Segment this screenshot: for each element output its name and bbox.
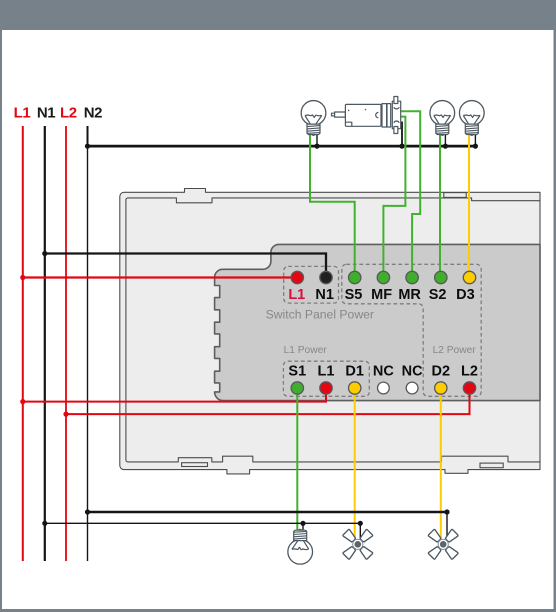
svg-text:NC: NC bbox=[402, 364, 423, 380]
svg-text:N1: N1 bbox=[37, 104, 55, 121]
switch panel inner rim line bbox=[126, 198, 540, 462]
fan F2 bbox=[428, 529, 458, 559]
terminal MR bbox=[406, 271, 418, 283]
wire bus to fan1 bbox=[359, 523, 361, 538]
svg-text:MR: MR bbox=[398, 287, 421, 303]
terminal D3 bbox=[463, 271, 475, 283]
lamp LA4 (bottom bulb, inverted) bbox=[288, 529, 313, 564]
dashed box around S1/L1/D1 terminals bbox=[283, 361, 369, 396]
svg-text:L2 Power: L2 Power bbox=[433, 345, 477, 356]
svg-text:MF: MF bbox=[371, 287, 392, 303]
lamp LA1 (top left bulb) bbox=[301, 101, 326, 136]
bottom page border bbox=[0, 609, 556, 612]
wire N2 (left vertical black, upper) bbox=[87, 126, 89, 146]
junction L1 tap bbox=[20, 275, 25, 280]
svg-text:S5: S5 bbox=[345, 287, 363, 303]
wire motor to MF (green) bbox=[383, 117, 405, 272]
terminal row 1 labels bbox=[288, 287, 474, 303]
terminal S5 bbox=[349, 271, 361, 283]
svg-text:Switch Panel Power: Switch Panel Power bbox=[266, 307, 374, 321]
junction lamp1/N2 bus bbox=[314, 144, 319, 149]
wire lamp3 to D3 (yellow) bbox=[468, 134, 470, 271]
junction motor/N2 bus bbox=[399, 144, 404, 149]
svg-text:S1: S1 bbox=[288, 364, 306, 380]
wire bus to fan2 bbox=[446, 512, 448, 539]
wire N1 to terminal N1 bbox=[45, 254, 326, 272]
svg-text:L2: L2 bbox=[461, 364, 478, 380]
svg-text:L1: L1 bbox=[288, 287, 305, 303]
wire N2 top bus bbox=[88, 145, 476, 148]
terminal L2 row2 bbox=[463, 382, 475, 394]
junction L2 tap bbox=[63, 412, 68, 417]
svg-text:L1: L1 bbox=[14, 104, 31, 121]
wire D2 to fan2 (yellow) bbox=[440, 394, 442, 538]
wire N2 (left vertical black, lower) bbox=[87, 146, 89, 561]
motor shaft bbox=[332, 112, 346, 117]
svg-text:D1: D1 bbox=[345, 364, 364, 380]
junction fan2 drop bbox=[444, 509, 449, 514]
motor body notch bbox=[345, 122, 351, 126]
motor cap arcs bbox=[394, 107, 399, 123]
terminal S1 bbox=[291, 382, 303, 394]
wire bus to bottom lamp bbox=[302, 523, 304, 530]
wire N2 bottom bus (upper) bbox=[88, 511, 448, 514]
junction L1 lower tap bbox=[20, 399, 25, 404]
wire N1 (left vertical black) bbox=[44, 126, 46, 561]
wire L1 to terminal L1 bbox=[23, 276, 294, 278]
wire lamp2 to S2 (green) bbox=[439, 134, 441, 271]
panel top-right clip slot bbox=[444, 193, 466, 198]
junction lamp3/N2 bus end bbox=[473, 144, 478, 149]
terminal MF bbox=[377, 271, 389, 283]
terminal D1 bbox=[349, 382, 361, 394]
lamp LA2 (top bulb above S2) bbox=[430, 101, 455, 136]
lamp LA3 (top bulb above D3) bbox=[459, 101, 484, 136]
left page border bbox=[0, 30, 2, 612]
wire lamp2 to N2 bus bbox=[444, 134, 446, 146]
wire labels L1 N1 L2 N2 (top left) bbox=[14, 104, 103, 121]
terminal S2 bbox=[435, 271, 447, 283]
wire motor to N2 bus bbox=[401, 122, 403, 147]
junction N2/top bus bbox=[85, 144, 90, 149]
motor terminal tab top bbox=[394, 97, 398, 104]
switch panel outer body bbox=[120, 189, 540, 474]
terminal NC a bbox=[378, 382, 390, 394]
svg-text:L1 Power: L1 Power bbox=[284, 345, 328, 356]
svg-text:N1: N1 bbox=[315, 287, 334, 303]
fan F1 bbox=[343, 529, 373, 559]
motor body bbox=[345, 104, 381, 126]
junction lamp2/N2 bus bbox=[443, 144, 448, 149]
terminal NC b bbox=[406, 382, 418, 394]
wire S1 to bottom lamp (green) bbox=[296, 394, 298, 531]
dashed L-shaped box around S5/MF/MR/S2/D3 + D2/L2 bbox=[342, 264, 481, 396]
wire L1 (left vertical red) bbox=[22, 126, 24, 561]
wire motor to MR (green) bbox=[401, 111, 421, 271]
junction lamp drop bbox=[300, 521, 305, 526]
panel bottom-right clip slot bbox=[480, 463, 503, 468]
motor terminal tab bottom bbox=[394, 127, 398, 134]
terminal row 2 labels bbox=[288, 364, 478, 380]
terminal L1 row2 bbox=[320, 382, 332, 394]
right page border bbox=[554, 30, 556, 612]
terminal N1 row1 bbox=[320, 271, 332, 283]
svg-text:N2: N2 bbox=[84, 104, 102, 121]
motor body dots bbox=[348, 110, 350, 112]
top slate band bbox=[0, 0, 556, 30]
motor body semicircle bbox=[376, 112, 379, 117]
svg-text:D2: D2 bbox=[432, 364, 451, 380]
wire N1 bottom bus (lower) bbox=[45, 522, 361, 524]
svg-text:NC: NC bbox=[373, 364, 394, 380]
wire lamp1 to S5 (green) bbox=[310, 133, 355, 271]
junction N2 bottom tap bbox=[85, 509, 90, 514]
wire lamp1 to N2 bus bbox=[316, 133, 318, 146]
wire lamp3 to N2 bus end bbox=[474, 134, 476, 146]
wire L1 to terminal L1 row2 bbox=[23, 394, 326, 402]
panel bottom-left clip slot bbox=[182, 463, 208, 467]
svg-text:L1: L1 bbox=[318, 364, 335, 380]
junction fan1 drop bbox=[358, 521, 363, 526]
motor gearbox slats bbox=[382, 104, 387, 127]
junction N1 tap bbox=[42, 251, 47, 256]
svg-text:S2: S2 bbox=[429, 287, 447, 303]
svg-text:L2: L2 bbox=[60, 104, 77, 121]
svg-text:D3: D3 bbox=[456, 287, 475, 303]
junction N1 bottom tap bbox=[42, 521, 47, 526]
motor M1 bbox=[332, 97, 401, 134]
terminal D2 bbox=[435, 382, 447, 394]
wire D1 to fan1 (yellow) bbox=[354, 394, 356, 538]
dashed box around L1/N1 terminals bbox=[284, 266, 339, 303]
terminal L1 row1 bbox=[291, 271, 303, 283]
wire L2 to terminal L2 row2 bbox=[66, 394, 470, 414]
motor end cap bbox=[392, 101, 400, 129]
wire L2 (left vertical red) bbox=[65, 126, 67, 561]
terminal recess (dark gray area with castellated left edge) bbox=[215, 244, 540, 400]
